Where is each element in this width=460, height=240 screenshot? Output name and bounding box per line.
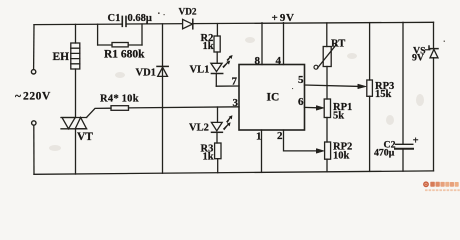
- wire pin6 to RP1: [305, 106, 318, 108]
- wire EH to triac: [75, 69, 77, 118]
- svg-text:8: 8: [255, 55, 261, 67]
- wire VS branch right edge: [433, 22, 435, 48]
- resistor R2: [214, 36, 220, 52]
- LED VL2 arrows: [223, 115, 233, 130]
- resistor R4: [111, 106, 239, 111]
- wire bottom rail: [34, 171, 434, 174]
- svg-text:470μ: 470μ: [374, 148, 395, 159]
- arrow pin2 to RP2 wiper: [317, 149, 325, 154]
- svg-text:5k: 5k: [333, 111, 344, 122]
- resistor R1: [98, 43, 142, 47]
- svg-text:5: 5: [298, 74, 304, 86]
- IC U1 box: [239, 65, 305, 131]
- arrow pin6 to RP1 wiper: [317, 106, 325, 111]
- svg-text:VT: VT: [77, 131, 93, 143]
- wire RP2 to bottom rail: [326, 159, 328, 172]
- wire R2 to VL1: [216, 52, 218, 63]
- capacitor C2 electrolytic: [395, 144, 413, 171]
- svg-text:0.68μ: 0.68μ: [128, 13, 152, 24]
- potentiometer RP2: [325, 142, 331, 159]
- terminal lower ~220V: [32, 121, 36, 125]
- svg-text:EH: EH: [53, 51, 70, 63]
- svg-text:R1 680k: R1 680k: [104, 49, 145, 61]
- wire RC block right vertical: [141, 24, 143, 45]
- wire left edge vertical top: [33, 25, 35, 70]
- wire pin5 to RP3: [305, 85, 360, 86]
- LED VL2: [211, 122, 222, 143]
- svg-text:R4* 10k: R4* 10k: [100, 94, 139, 105]
- svg-text:15k: 15k: [375, 89, 392, 100]
- resistor R3: [215, 143, 221, 159]
- wire RP1 to RP2: [326, 118, 328, 143]
- svg-text:1k: 1k: [203, 41, 214, 52]
- wire VL2 branch junction from pin3 wire: [217, 107, 219, 122]
- wire RP3 branch from rail: [369, 23, 371, 80]
- svg-text:–: –: [424, 45, 431, 56]
- wire pin7 horizontal: [216, 85, 239, 87]
- watermark logo: [423, 181, 460, 191]
- heating element EH: [71, 43, 80, 69]
- capacitor C1: [122, 16, 126, 26]
- wire R2 branch from rail: [216, 24, 218, 36]
- svg-text:IC: IC: [267, 92, 280, 104]
- svg-text:1: 1: [256, 131, 262, 143]
- wire RC block left vertical: [97, 24, 99, 45]
- svg-text:VD1: VD1: [136, 68, 156, 79]
- wire left edge vertical bottom: [33, 125, 35, 174]
- svg-text:+ 9V: + 9V: [272, 12, 295, 24]
- svg-text:~ 220V: ~ 220V: [15, 91, 51, 103]
- triac VT: [61, 118, 87, 129]
- potentiometer RP1: [324, 99, 330, 118]
- zener diode VS: [429, 46, 438, 171]
- svg-text:VL2: VL2: [189, 123, 209, 134]
- thermistor RT: [314, 44, 337, 69]
- wire RT branch from rail: [326, 23, 328, 47]
- svg-text:VD2: VD2: [179, 8, 197, 18]
- wire pin1 vertical: [261, 130, 263, 172]
- wire top rail right segment: [127, 22, 434, 24]
- wire pin8 vertical: [261, 23, 263, 65]
- svg-text:2: 2: [277, 130, 283, 142]
- svg-text:RT: RT: [331, 39, 345, 50]
- svg-text:7: 7: [232, 76, 238, 88]
- wire triac to bottom rail: [75, 129, 77, 174]
- wire R3 to bottom rail: [217, 159, 219, 173]
- svg-text:3: 3: [233, 97, 239, 109]
- wire RP3 to bottom rail: [369, 96, 371, 171]
- svg-text:1k: 1k: [203, 152, 214, 163]
- wire pin4 vertical: [283, 23, 285, 65]
- svg-text:6: 6: [298, 96, 304, 108]
- wire pin2 down and right to RP2: [284, 130, 318, 151]
- svg-text:+: +: [413, 135, 419, 146]
- scan specks: [158, 12, 445, 89]
- LED VL1: [211, 63, 223, 86]
- svg-text:VL1: VL1: [190, 65, 210, 76]
- svg-text:10k: 10k: [333, 151, 350, 162]
- wire C2 branch from rail: [402, 22, 404, 144]
- wire RT to RP1: [326, 67, 328, 100]
- wire EH branch from rail: [75, 24, 77, 43]
- terminal upper ~220V: [31, 70, 35, 74]
- diode VD2: [183, 19, 193, 29]
- svg-text:C1: C1: [108, 13, 121, 24]
- wire triac gate: [87, 108, 111, 117]
- svg-text:4: 4: [276, 55, 282, 67]
- diode VD1: [157, 66, 168, 76]
- potentiometer RP3: [367, 80, 373, 96]
- LED VL1 arrows: [222, 55, 232, 68]
- arrow pin5 to RP3 wiper: [358, 84, 366, 89]
- wire top rail left segment: [34, 23, 122, 26]
- svg-text:9V: 9V: [412, 53, 424, 64]
- wire VD1 branch vertical: [162, 24, 164, 173]
